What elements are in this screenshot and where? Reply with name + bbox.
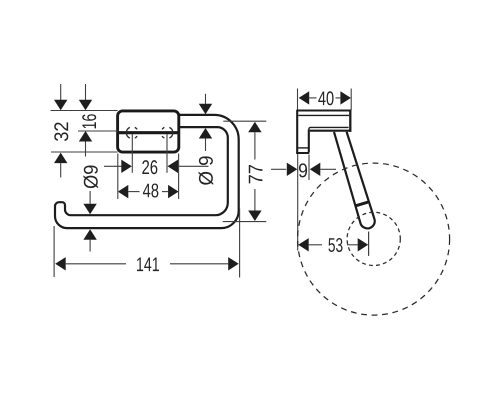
bracket underside thick bbox=[310, 130, 351, 132]
arm side view bbox=[334, 132, 375, 229]
dim 53 bbox=[298, 238, 309, 251]
extension line 16 bottom bbox=[78, 130, 118, 132]
tick 53 right bbox=[368, 232, 370, 256]
paper roll core (dashed) bbox=[347, 212, 400, 265]
screw hole left (dashed) bbox=[126, 127, 137, 138]
screw hole right (dashed) bbox=[162, 127, 173, 138]
bracket inner bottom bbox=[297, 147, 309, 149]
label 48 bbox=[143, 183, 158, 197]
extension lines 40 bbox=[297, 89, 299, 111]
label 16 bbox=[82, 114, 96, 128]
extension line 9 right bbox=[308, 155, 310, 181]
extension lines 26 bbox=[131, 134, 133, 173]
extension lines 48 bbox=[117, 154, 119, 199]
label diameter 9 right bbox=[199, 156, 214, 184]
dim 16 arrows bbox=[85, 84, 87, 100]
dim 40 bbox=[299, 91, 310, 104]
extension line 32 bottom bbox=[51, 151, 118, 153]
dim 141 bbox=[53, 226, 55, 277]
label 141 bbox=[137, 257, 159, 271]
arm root vertical bbox=[308, 130, 310, 153]
dim 32 arrows bbox=[60, 84, 62, 100]
bracket side view top plate bbox=[297, 109, 352, 111]
dim diameter 9 left bbox=[89, 191, 91, 204]
dim 48 bbox=[118, 185, 129, 198]
dim diameter 9 right bbox=[205, 94, 207, 104]
label 40 bbox=[318, 91, 333, 105]
label 9 bbox=[299, 163, 307, 177]
dim 26 bbox=[104, 165, 121, 167]
extension line plate top bbox=[51, 110, 118, 112]
label diameter 9 left bbox=[83, 166, 98, 189]
paper roll outer (dashed) bbox=[298, 163, 450, 315]
bracket right edge bbox=[349, 110, 351, 132]
bracket wall edge bbox=[296, 110, 298, 154]
bracket underside thin bbox=[309, 127, 349, 130]
label 32 bbox=[54, 122, 68, 141]
dim 77 bbox=[223, 120, 266, 122]
mounting plate front view bbox=[118, 111, 179, 152]
arm seam crossbar bbox=[356, 202, 369, 206]
plate mid line bbox=[117, 131, 179, 134]
side view wall line bbox=[297, 153, 299, 251]
bracket bottom cap bbox=[296, 152, 309, 154]
label 77 bbox=[249, 165, 263, 183]
label 53 bbox=[328, 238, 342, 252]
dim 9 side view bbox=[271, 168, 286, 170]
holder outline front view bbox=[55, 115, 239, 228]
label 26 bbox=[142, 160, 157, 174]
